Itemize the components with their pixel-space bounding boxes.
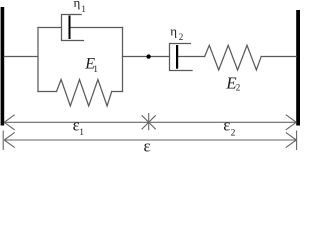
svg-text:ε: ε <box>223 116 230 135</box>
wire: parallel box left vertical <box>37 28 39 92</box>
dimension line epsilon1 + epsilon2 <box>4 121 296 123</box>
node junction dot <box>146 54 150 58</box>
dashpot eta2 piston rod <box>177 56 205 58</box>
extension line right <box>296 131 298 151</box>
svg-text:1: 1 <box>79 128 84 138</box>
wire: bottom rail right of spring E1 <box>112 91 123 93</box>
left wall <box>1 7 5 126</box>
arrowhead left dim2 <box>4 132 15 147</box>
wire from spring E2 to right wall <box>261 56 296 58</box>
wire from box to node and dashpot eta2 <box>123 56 170 58</box>
star marker diagonals <box>142 115 156 129</box>
svg-text:2: 2 <box>179 32 184 42</box>
svg-text:2: 2 <box>236 83 241 93</box>
dashpot eta2 cylinder <box>170 44 193 71</box>
svg-text:ε: ε <box>144 137 151 153</box>
svg-text:1: 1 <box>93 65 98 75</box>
extension line left <box>2 131 4 151</box>
spring E1 <box>57 80 112 107</box>
svg-text:η: η <box>170 24 177 39</box>
arrowhead left dim1 <box>4 115 15 130</box>
arrowhead right dim2 <box>286 132 297 147</box>
wire: bottom rail left of spring E1 <box>38 91 57 93</box>
arrowhead right dim1 <box>286 115 297 130</box>
dashpot eta1 piston <box>69 16 71 40</box>
star marker vertical <box>148 113 150 130</box>
spring E2 <box>205 45 262 70</box>
wire from left wall to parallel box <box>4 56 38 58</box>
dashpot eta1 piston rod <box>70 27 123 29</box>
wire: parallel box right vertical <box>122 28 124 92</box>
right wall <box>296 10 300 126</box>
svg-text:1: 1 <box>81 4 86 14</box>
dashpot eta1 cylinder <box>62 15 84 41</box>
svg-text:2: 2 <box>231 128 236 138</box>
dashpot eta2 piston <box>176 45 178 69</box>
svg-text:η: η <box>74 0 81 10</box>
wire: top rail to dashpot cylinder <box>38 27 62 29</box>
dimension line epsilon total <box>4 139 296 141</box>
